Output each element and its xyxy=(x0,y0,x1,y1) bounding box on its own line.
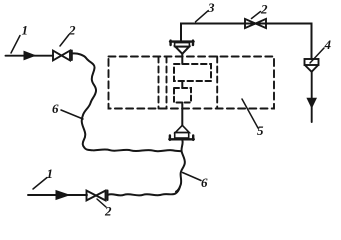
coupling bottom: band xyxy=(175,133,189,138)
label 2 leader top-left xyxy=(60,35,69,47)
svg-text:1: 1 xyxy=(22,23,29,38)
wire between blocks xyxy=(181,81,183,88)
coupling bottom: outline cone xyxy=(175,125,189,132)
flow arrow bottom xyxy=(56,191,69,200)
valve 2 bottom xyxy=(87,191,106,201)
exhaust arrow xyxy=(307,98,316,107)
supply line 1 bottom xyxy=(28,194,87,196)
pipe 3 top run xyxy=(181,24,312,60)
valve 2 top-left xyxy=(53,51,70,61)
flow arrow top-left xyxy=(24,51,35,59)
svg-text:5: 5 xyxy=(257,123,264,138)
hose fitting bar bottom xyxy=(107,191,109,201)
valve 2 top pipe xyxy=(245,19,266,28)
wire coupling to big block xyxy=(181,54,183,64)
dashed divider line B xyxy=(166,57,168,109)
svg-text:4: 4 xyxy=(324,37,332,52)
svg-text:6: 6 xyxy=(52,101,59,116)
svg-text:2: 2 xyxy=(260,2,268,17)
coupling top: bar with end hooks xyxy=(170,41,194,45)
label 6 leader right xyxy=(183,173,202,181)
device small dashed block xyxy=(174,88,191,103)
coupling top: band xyxy=(175,43,190,47)
label 3 leader xyxy=(196,11,209,22)
label 2 leader top pipe xyxy=(252,12,261,19)
dashed divider line A xyxy=(158,57,160,109)
coupling bottom: bar with end hooks xyxy=(169,135,194,140)
dashed divider line C xyxy=(216,57,218,109)
flexible hose 6 bottom xyxy=(108,187,180,196)
supply line 1 top-left xyxy=(6,55,54,57)
label 6 leader left xyxy=(61,110,83,119)
flexible hose 6 upper-left xyxy=(72,53,182,151)
label 2 leader bottom xyxy=(97,199,106,207)
svg-text:2: 2 xyxy=(104,204,112,219)
label 4 leader xyxy=(310,48,324,63)
wire small block to bottom coupling xyxy=(181,103,183,126)
svg-text:3: 3 xyxy=(207,0,215,15)
exhaust line xyxy=(311,72,313,122)
test chamber dashed box 5 xyxy=(109,57,275,109)
label 5 leader xyxy=(242,99,258,128)
connecting hose vertical xyxy=(176,140,185,191)
label 1 leader bottom xyxy=(33,178,47,190)
svg-text:2: 2 xyxy=(68,23,76,38)
muffler 4: body rect xyxy=(305,59,319,65)
device big dashed block xyxy=(174,64,211,81)
label 1 leader top xyxy=(11,36,20,54)
svg-text:6: 6 xyxy=(201,175,208,190)
coupling top: filled cone xyxy=(175,47,189,54)
svg-text:1: 1 xyxy=(47,166,54,181)
muffler 4: funnel xyxy=(305,65,318,72)
hose fitting bar top-left xyxy=(71,51,73,61)
